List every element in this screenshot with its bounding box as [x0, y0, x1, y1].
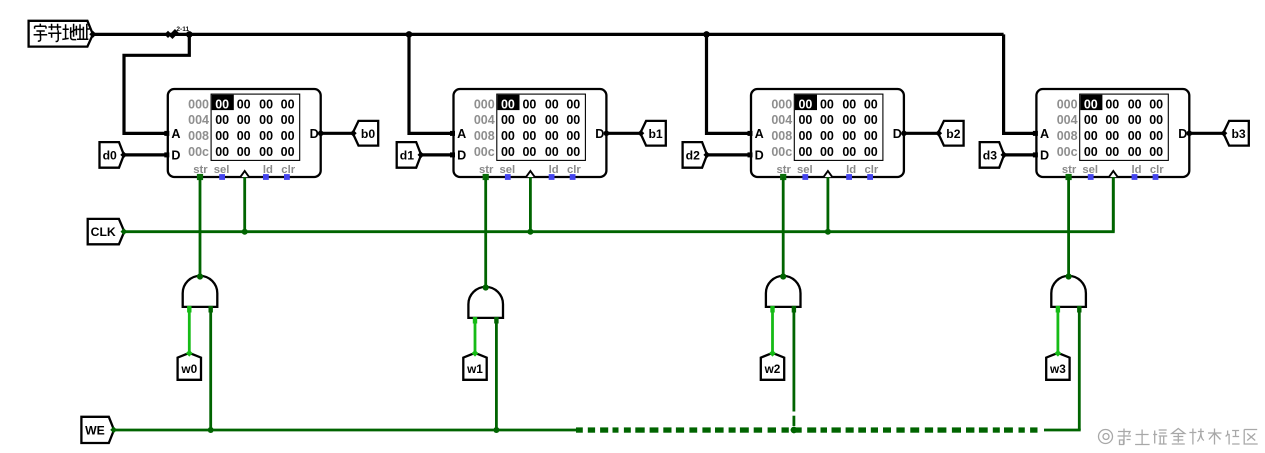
junction at AND gate G1 output [197, 273, 203, 279]
svg-text:00c: 00c [771, 145, 792, 159]
svg-text:00: 00 [237, 113, 251, 127]
wire: CLK riser to RAM U3 clock pin [827, 177, 830, 232]
svg-text:00: 00 [864, 97, 878, 111]
wire: w1 to AND gate G2 left input [474, 322, 477, 353]
svg-text:00: 00 [237, 97, 251, 111]
svg-text:00: 00 [259, 97, 273, 111]
svg-text:000: 000 [474, 97, 495, 111]
svg-text:00: 00 [842, 97, 856, 111]
input pin d0 [100, 142, 124, 168]
svg-text:D: D [310, 127, 319, 141]
svg-text:d2: d2 [686, 149, 700, 163]
svg-text:00: 00 [215, 97, 229, 111]
svg-text:D: D [457, 149, 466, 163]
RAM U3 memory table [794, 94, 883, 160]
svg-text:008: 008 [188, 129, 209, 143]
svg-text:00: 00 [842, 113, 856, 127]
RAM U3 pin D out [901, 131, 907, 137]
svg-text:00: 00 [1128, 97, 1142, 111]
svg-text:clr: clr [1150, 164, 1164, 176]
RAM U1 pin sel [219, 174, 225, 180]
svg-text:00: 00 [864, 113, 878, 127]
svg-text:00: 00 [566, 113, 580, 127]
svg-text:00: 00 [1149, 113, 1163, 127]
wire: WE bus horizontal (left solid part) [114, 429, 576, 432]
svg-text:00: 00 [798, 145, 812, 159]
svg-text:ld: ld [263, 164, 273, 176]
svg-text:00: 00 [237, 129, 251, 143]
RAM U4 memory table [1080, 94, 1169, 160]
RAM U3 pin D in [748, 152, 753, 157]
wire: address drop to RAM U3 A input [707, 34, 752, 133]
RAM U4 pin sel [1088, 174, 1094, 180]
AND gate G1 input stub right [209, 306, 213, 313]
watermark @稀土掘金技术社区 [1099, 429, 1258, 445]
wire: CLK riser to RAM U1 clock pin [243, 177, 246, 232]
junction on CLK bus at x=827.9 [825, 229, 831, 235]
svg-text:b2: b2 [946, 127, 960, 141]
svg-text:00: 00 [545, 113, 559, 127]
AND gate G3 [766, 276, 801, 307]
svg-text:WE: WE [85, 424, 105, 438]
svg-text:00: 00 [545, 129, 559, 143]
svg-text:004: 004 [474, 113, 495, 127]
RAM U4 pin A [1033, 131, 1038, 136]
svg-text:00: 00 [237, 145, 251, 159]
RAM U2 memory table [497, 94, 586, 160]
junction at AND gate G3 output [780, 273, 786, 279]
svg-text:d1: d1 [400, 149, 414, 163]
svg-text:ld: ld [846, 164, 856, 176]
svg-text:A: A [1040, 127, 1049, 141]
svg-text:00: 00 [566, 129, 580, 143]
svg-text:sel: sel [214, 164, 230, 176]
RAM U1 pin clr [284, 174, 290, 180]
RAM block U1 body [168, 89, 321, 177]
svg-text:00: 00 [259, 129, 273, 143]
svg-text:w0: w0 [180, 362, 197, 376]
input pin w1 [463, 353, 486, 380]
wire: WE bus watermark-dashed part [576, 427, 1038, 432]
svg-text:00: 00 [281, 145, 295, 159]
RAM U1 memory table [211, 94, 300, 160]
wire: RAM U4 D out to b3 [1189, 132, 1223, 135]
svg-text:00: 00 [1084, 97, 1098, 111]
svg-text:CLK: CLK [91, 225, 116, 239]
AND gate G3 input stub left [770, 306, 774, 313]
svg-text:00c: 00c [474, 145, 495, 159]
RAM U1 pin D in [164, 152, 169, 157]
svg-text:sel: sel [499, 164, 515, 176]
wire: CLK riser to RAM U2 clock pin [529, 177, 532, 232]
svg-text:00: 00 [281, 129, 295, 143]
svg-text:D: D [1040, 149, 1049, 163]
svg-text:00: 00 [842, 145, 856, 159]
RAM U4 clock pin chevron [1109, 171, 1118, 177]
RAM U3 pin A [748, 131, 753, 136]
RAM U2 pin sel [505, 174, 511, 180]
svg-text:00: 00 [798, 129, 812, 143]
junction at AND gate G4 output [1066, 273, 1072, 279]
RAM U3 pin sel [802, 174, 808, 180]
svg-text:ld: ld [1131, 164, 1141, 176]
svg-text:00: 00 [522, 113, 536, 127]
AND gate G4 input stub right [1077, 306, 1081, 313]
wire: address drop to RAM U2 A input [409, 34, 454, 133]
svg-text:008: 008 [771, 129, 792, 143]
RAM block U3 body [751, 89, 904, 177]
svg-text:00c: 00c [1057, 145, 1078, 159]
svg-text:w3: w3 [1049, 362, 1066, 376]
svg-text:00: 00 [215, 145, 229, 159]
svg-text:A: A [457, 127, 466, 141]
wire: w2 to AND gate G3 left input [771, 311, 774, 353]
wire: CLK bus horizontal and corner up to RAM U4 clock [124, 177, 1113, 232]
junction on CLK bus at x=530.4 [527, 229, 533, 235]
svg-text:00: 00 [1105, 145, 1119, 159]
svg-text:00: 00 [1084, 113, 1098, 127]
svg-text:00: 00 [820, 145, 834, 159]
AND gate G4 [1051, 276, 1086, 307]
svg-text:00: 00 [1084, 145, 1098, 159]
input pin d3 [980, 142, 1004, 168]
AND gate G1 [183, 276, 218, 307]
svg-text:00: 00 [522, 145, 536, 159]
svg-text:00: 00 [820, 97, 834, 111]
svg-text:00: 00 [501, 113, 515, 127]
svg-text:00: 00 [1105, 97, 1119, 111]
AND gate G1 input stub left [187, 306, 191, 313]
svg-text:008: 008 [1057, 129, 1078, 143]
wire: d1 to RAM D input [421, 153, 454, 156]
RAM U2 pin str [483, 174, 489, 180]
wire: d3 to RAM D input [1004, 153, 1037, 156]
AND gate G2 [468, 287, 503, 318]
RAM U2 pin A [450, 131, 455, 136]
wire: w0 to AND gate G1 left input [188, 311, 191, 353]
junction on address bus at x=706.5 [703, 31, 710, 38]
svg-text:004: 004 [188, 113, 209, 127]
junction redraw at WE/G3 (over dashes) [791, 427, 797, 433]
svg-text:00: 00 [522, 97, 536, 111]
AND gate G4 input stub left [1056, 306, 1060, 313]
svg-text:d3: d3 [983, 149, 997, 163]
svg-text:clr: clr [864, 164, 878, 176]
wire: WE riser to AND gate G2 right input [495, 322, 498, 430]
AND gate G2 input stub right [494, 317, 498, 324]
svg-text:w1: w1 [466, 362, 483, 376]
svg-text:00: 00 [259, 113, 273, 127]
input pin w2 [761, 353, 784, 380]
junction on address bus at x=189.3 [186, 31, 193, 38]
RAM block U4 body [1036, 89, 1189, 177]
output pin b2 [938, 121, 964, 146]
RAM block U2 body [454, 89, 607, 177]
input pin w0 [178, 353, 201, 380]
wire: address drop to RAM U1 A input [124, 34, 189, 133]
svg-text:00: 00 [1105, 129, 1119, 143]
svg-text:00: 00 [501, 129, 515, 143]
wire: WE bus right solid part up to corner [1044, 429, 1081, 432]
wire: RAM U3 D out to b2 [904, 132, 938, 135]
input pin d1 [397, 142, 421, 168]
wire: d2 to RAM D input [707, 153, 751, 156]
output pin b0 [353, 121, 379, 146]
svg-text:00: 00 [501, 97, 515, 111]
AND gate G2 input stub left [473, 317, 477, 324]
wire: str pin down to AND gate G2 output [484, 177, 487, 287]
svg-text:A: A [171, 127, 180, 141]
junction on WE bus at AND G3 input [791, 427, 797, 433]
junction on WE bus at AND G1 input [208, 427, 214, 433]
svg-text:00: 00 [798, 113, 812, 127]
svg-text:00: 00 [545, 145, 559, 159]
svg-text:D: D [755, 149, 764, 163]
svg-text:004: 004 [771, 113, 792, 127]
svg-text:00: 00 [842, 129, 856, 143]
svg-text:D: D [1178, 127, 1187, 141]
svg-text:00: 00 [798, 97, 812, 111]
wire: WE riser to AND gate G3 right input (broken by watermark) [793, 311, 796, 412]
RAM U2 pin D out [604, 131, 610, 137]
svg-text:b0: b0 [361, 127, 375, 141]
svg-text:00: 00 [215, 129, 229, 143]
svg-text:b3: b3 [1231, 127, 1245, 141]
RAM U3 pin str [780, 174, 786, 180]
svg-text:sel: sel [797, 164, 813, 176]
wire: RAM U2 D out to b1 [606, 132, 640, 135]
svg-text:00c: 00c [188, 145, 209, 159]
RAM U1 pin A [164, 131, 169, 136]
input pin d2 [683, 142, 707, 168]
junction on CLK bus at x=244.7 [242, 229, 248, 235]
wire: str pin down to AND gate G4 output [1067, 177, 1070, 276]
svg-text:A: A [755, 127, 764, 141]
svg-text:clr: clr [281, 164, 295, 176]
svg-text:clr: clr [567, 164, 581, 176]
junction at AND gate G2 output [483, 284, 489, 290]
svg-text:00: 00 [566, 145, 580, 159]
RAM U3 pin ld [846, 174, 852, 180]
svg-text:00: 00 [545, 97, 559, 111]
wire: address bus horizontal [93, 33, 1004, 36]
wire: CLK riser to RAM U4 clock pin [1112, 177, 1115, 232]
RAM U4 pin D out [1187, 131, 1193, 137]
wire: str pin down to AND gate G3 output [782, 177, 785, 276]
output pin b1 [640, 121, 666, 146]
svg-text:00: 00 [1084, 129, 1098, 143]
RAM U1 pin str [197, 174, 203, 180]
svg-text:00: 00 [864, 145, 878, 159]
svg-text:d0: d0 [103, 149, 117, 163]
RAM U2 pin D in [450, 152, 455, 157]
svg-text:D: D [595, 127, 604, 141]
input pin 字节地址 (byte address) [29, 21, 93, 47]
wire: str pin down to AND gate G1 output [199, 177, 202, 276]
junction on WE bus at AND G2 input [493, 427, 499, 433]
RAM U4 pin ld [1132, 174, 1138, 180]
splitter 2-11 [164, 31, 171, 38]
svg-text:00: 00 [1128, 129, 1142, 143]
wire: w3 to AND gate G4 left input [1057, 311, 1060, 353]
RAM U3 pin clr [867, 174, 873, 180]
svg-text:00: 00 [281, 113, 295, 127]
RAM U4 pin str [1066, 174, 1072, 180]
svg-text:00: 00 [820, 113, 834, 127]
svg-text:000: 000 [1057, 97, 1078, 111]
label text 字节地址 [34, 24, 90, 42]
svg-text:00: 00 [1149, 145, 1163, 159]
svg-text:00: 00 [864, 129, 878, 143]
svg-text:00: 00 [1149, 97, 1163, 111]
svg-text:00: 00 [1128, 145, 1142, 159]
svg-text:b1: b1 [648, 127, 662, 141]
wire: d0 to RAM D input [124, 153, 168, 156]
junction on address bus at x=409 [406, 31, 413, 38]
input pin WE [81, 417, 114, 443]
svg-text:D: D [893, 127, 902, 141]
svg-text:w2: w2 [764, 362, 781, 376]
RAM U2 clock pin chevron [526, 171, 535, 177]
RAM U1 clock pin chevron [240, 171, 249, 177]
RAM U1 pin ld [263, 174, 269, 180]
wire: WE riser to AND gate G1 right input [209, 311, 212, 430]
svg-text:00: 00 [566, 97, 580, 111]
svg-text:004: 004 [1057, 113, 1078, 127]
svg-text:ld: ld [549, 164, 559, 176]
svg-text:000: 000 [188, 97, 209, 111]
svg-text:00: 00 [1128, 113, 1142, 127]
svg-text:00: 00 [281, 97, 295, 111]
svg-text:008: 008 [474, 129, 495, 143]
svg-text:000: 000 [771, 97, 792, 111]
svg-text:00: 00 [501, 145, 515, 159]
svg-text:00: 00 [820, 129, 834, 143]
wire: WE bus corner riser to AND gate G4 right input [1078, 311, 1081, 430]
svg-text:D: D [171, 149, 180, 163]
RAM U4 pin clr [1153, 174, 1159, 180]
svg-text:00: 00 [1105, 113, 1119, 127]
RAM U4 pin D in [1033, 152, 1038, 157]
RAM U2 pin clr [570, 174, 576, 180]
svg-text:00: 00 [259, 145, 273, 159]
wire: address drop to RAM U4 A input [1004, 34, 1037, 133]
wire: RAM U1 D out to b0 [321, 132, 353, 135]
RAM U3 clock pin chevron [824, 171, 833, 177]
input pin CLK [88, 219, 125, 244]
svg-text:sel: sel [1082, 164, 1098, 176]
svg-text:00: 00 [522, 129, 536, 143]
output pin b3 [1223, 121, 1249, 146]
svg-text:00: 00 [215, 113, 229, 127]
AND gate G3 input stub right [792, 306, 796, 313]
RAM U2 pin ld [549, 174, 555, 180]
input pin w3 [1046, 353, 1069, 380]
svg-text:00: 00 [1149, 129, 1163, 143]
RAM U1 pin D out [318, 131, 324, 137]
